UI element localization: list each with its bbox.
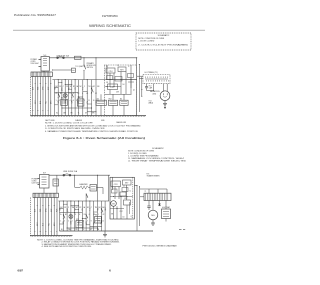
chassis ground bus bottom: [31, 115, 147, 117]
terminal labels under bus: [45, 119, 105, 122]
svg-text:Figure 6-1 : Oven Schematic (A: Figure 6-1 : Oven Schematic (All Conditi…: [63, 136, 145, 140]
svg-text:RY1: RY1: [61, 97, 64, 99]
svg-text:GY: GY: [85, 113, 87, 115]
bus drop wire 2: [96, 57, 97, 79]
bottom door switch SW1: [63, 214, 65, 219]
svg-text:1: 1: [32, 110, 34, 111]
svg-text:Q1: Q1: [131, 216, 133, 218]
svg-text:SCHEMATIC: SCHEMATIC: [158, 34, 170, 37]
bottom control board parts: [111, 177, 131, 219]
svg-text:LVT: LVT: [96, 98, 99, 100]
wire HV secondary drop 1: [145, 84, 148, 91]
svg-text:BL: BL: [56, 113, 58, 115]
svg-text:GRY: GRY: [51, 209, 53, 212]
bottom wire YEL: [48, 198, 50, 236]
bottom HV diode: [158, 201, 160, 206]
wire second riser: [138, 65, 140, 113]
svg-text:K2: K2: [95, 93, 97, 95]
bottom schematic notes: [37, 238, 120, 248]
chassis ground symbol: [103, 231, 107, 237]
micro labels row 2: [56, 100, 99, 102]
svg-text:BL: BL: [61, 229, 63, 231]
bottom neutral wire collector: [60, 231, 153, 232]
bottom wire ORG: [46, 198, 48, 236]
chassis boundary dashed left: [30, 77, 32, 116]
timer motor box: [77, 97, 84, 106]
svg-text:YEL: YEL: [45, 101, 47, 104]
wire BLU from TB1: [40, 77, 42, 116]
bottom wire tap links: [60, 205, 102, 227]
header rule: [13, 29, 205, 31]
svg-text:6: 6: [45, 83, 47, 84]
bottom right risers: [134, 185, 140, 231]
svg-text:B2: B2: [65, 214, 67, 216]
wire HV secondary drop 2: [147, 84, 154, 91]
svg-text:R1: R1: [112, 187, 114, 189]
bottom harness wire SW1: [63, 201, 65, 231]
noise filter FB1: [41, 55, 49, 71]
svg-text:R1: R1: [106, 66, 108, 68]
wire harness line GRN: [78, 80, 80, 116]
svg-text:6: 6: [48, 205, 50, 206]
top schematic power cord label: [31, 59, 39, 65]
bottom harness wire WHT: [101, 201, 103, 231]
svg-text:FWT05535C: FWT05535C: [102, 14, 118, 18]
svg-text:BRN: BRN: [51, 101, 53, 104]
component row rect 3 buzzer: [120, 94, 128, 115]
bottom routing wire row 3: [67, 227, 97, 229]
oven lamp OL: [61, 90, 67, 98]
wire GRY from TB1: [48, 77, 50, 116]
svg-text:5: 5: [63, 100, 64, 102]
svg-text:VR: VR: [106, 82, 108, 84]
svg-text:SCHEMATIC: SCHEMATIC: [152, 147, 164, 150]
wire HV filament drops: [163, 84, 167, 92]
svg-text:C2: C2: [123, 186, 125, 188]
bottom bus drop b: [97, 175, 98, 201]
svg-text:2: 2: [37, 205, 39, 206]
wire routing row 3: [62, 107, 92, 109]
terminal board TB1: [31, 72, 52, 77]
svg-text:E: E: [73, 93, 74, 95]
svg-text:4: 4: [40, 83, 42, 84]
wire BLK from TB1: [32, 77, 34, 116]
bottom bus drop c switch: [86, 194, 88, 202]
magnetron label: [150, 90, 160, 95]
bottom micro labels row 1: [60, 206, 105, 209]
bottom harness wire GRN: [86, 201, 88, 231]
svg-text:BLU: BLU: [105, 207, 107, 210]
svg-text:7: 7: [51, 231, 53, 232]
svg-text:D1: D1: [74, 214, 76, 216]
svg-text:WHT: WHT: [35, 100, 37, 104]
interlock switch label: [87, 62, 97, 69]
wire harness line TTM: [91, 80, 93, 116]
svg-text:RY2: RY2: [125, 198, 128, 200]
bottom monitor switch SW2: [86, 214, 88, 219]
svg-text:NOTE: 1. DOOR CLOSED, COOK CY: NOTE: 1. DOOR CLOSED, COOK CYCLE OFF.: [45, 123, 94, 125]
svg-text:IC: IC: [130, 191, 131, 193]
micro labels row 3: [56, 113, 95, 115]
HV transformer windings: [146, 76, 169, 81]
bottom wire BRN: [54, 198, 56, 236]
wire from noise filter to terminal board: [43, 71, 45, 72]
svg-text:RY: RY: [79, 207, 81, 209]
svg-text:D1: D1: [69, 93, 71, 95]
wire YEL from TB1: [45, 77, 47, 116]
primary interlock switch drop: [84, 57, 86, 79]
bottom noise filter FB1: [40, 173, 50, 188]
bottom wire PUR: [57, 198, 59, 236]
svg-text:2. INTERLOCK SWITCHES ARE SHOW: 2. INTERLOCK SWITCHES ARE SHOWN WITH DOO…: [45, 124, 142, 127]
bottom harness wire RY: [82, 201, 84, 231]
bottom micro labels row 2: [60, 221, 104, 223]
wire branch row upper: [52, 69, 72, 72]
component row rect 2 relay: [108, 94, 117, 115]
svg-text:K2: K2: [103, 214, 105, 216]
svg-text:OL: OL: [67, 211, 69, 213]
svg-text:Publication No. 5995353427: Publication No. 5995353427: [14, 13, 57, 17]
svg-text:2. COOK CYCLE NOT PROGRAMMED: 2. COOK CYCLE NOT PROGRAMMED: [138, 43, 189, 46]
svg-text:BLU: BLU: [40, 101, 42, 104]
bottom wire WHT: [37, 198, 39, 236]
bottom control board clutter: [110, 186, 133, 219]
svg-text:WHT: WHT: [37, 222, 39, 226]
wire RED from TB1: [38, 77, 40, 116]
bottom fuse F1: [63, 170, 78, 176]
node junction dots top right: [136, 57, 142, 97]
bottom HV transformer T1: [140, 173, 171, 200]
wire ORG from TB1: [43, 77, 45, 116]
thermal cutout TCO: [75, 56, 82, 59]
svg-text:BRN: BRN: [54, 223, 56, 226]
wire harness line FM: [87, 80, 89, 116]
bottom wire L1 bus: [49, 174, 110, 176]
bottom harness wire SW2: [78, 201, 80, 231]
bottom timer box: [95, 215, 102, 223]
bottom harness wire BLU: [105, 201, 107, 231]
bottom harness wire NC: [67, 201, 69, 231]
bottom wire RED: [40, 198, 42, 236]
bottom routing wire row 2: [60, 212, 83, 214]
svg-text:10: 10: [93, 100, 95, 102]
svg-text:1: 1: [34, 231, 36, 232]
svg-text:D4: D4: [123, 84, 125, 86]
heater element zigzag: [80, 183, 89, 189]
svg-text:(MG): (MG): [153, 93, 157, 95]
HV transformer dashed enclosure: [143, 75, 170, 84]
bottom control unit enclosure: [110, 177, 134, 219]
wire heater link: [75, 188, 103, 195]
svg-text:10: 10: [98, 221, 100, 223]
svg-text:4. SEE NOTE ABOVE FOR SWITCH C: 4. SEE NOTE ABOVE FOR SWITCH CONDITIONS.: [42, 245, 93, 248]
bottom wires from transformer top: [140, 189, 167, 193]
svg-text:11: 11: [95, 221, 97, 223]
svg-text:YL: YL: [78, 113, 80, 115]
control board components: [106, 65, 131, 94]
svg-text:12: 12: [102, 221, 104, 223]
svg-text:2: 2: [72, 221, 73, 223]
wire right riser: [136, 58, 138, 116]
svg-text:4. 'HIGH' HEAT TEMPERATURE S: 4. 'HIGH' HEAT TEMPERATURE SELECTED: [128, 159, 187, 162]
bottom interlock switch 3: [101, 208, 103, 213]
bottom relay RY1 box: [76, 219, 83, 228]
svg-text:MG: MG: [151, 215, 155, 217]
svg-text:INTERLOCK: INTERLOCK: [87, 65, 97, 67]
interlock relay box: [61, 97, 68, 105]
damper motor box: [90, 185, 97, 192]
wire L1 top bus: [49, 57, 136, 59]
bottom harness wire T-1: [90, 201, 92, 231]
bottom harness wire COM: [71, 201, 73, 231]
bottom micro labels row 4: [60, 213, 104, 216]
svg-text:C: C: [70, 214, 71, 216]
svg-text:SWITCH: SWITCH: [87, 67, 94, 69]
micro labels row 1: [56, 85, 100, 88]
bottom chassis dashed left: [29, 198, 31, 237]
control enclosure divider: [105, 93, 132, 95]
wire tap links: [55, 84, 97, 112]
magnetron ground: [163, 101, 167, 109]
wire harness line SW2: [72, 80, 74, 116]
svg-text:C2: C2: [117, 65, 119, 67]
bottom harness wire BLK: [59, 201, 61, 231]
monitor switch SW2: [71, 93, 73, 98]
svg-text:YEL: YEL: [48, 223, 50, 226]
bottom harness wire SM: [97, 201, 99, 231]
stray marks right: [179, 228, 185, 230]
control board clutter: [105, 65, 137, 91]
svg-text:BLU: BLU: [43, 223, 45, 226]
secondary interlock switch: [91, 88, 93, 93]
wire routing row 2: [55, 91, 79, 93]
svg-text:1: 1: [56, 100, 57, 102]
schematic condition note box: [136, 33, 191, 50]
bottom HV capacitor lead: [147, 201, 150, 211]
bottom wire GRY: [51, 198, 53, 236]
svg-text:E: E: [79, 214, 80, 216]
svg-text:4. VARIABLE POWER SWITCH AND T: 4. VARIABLE POWER SWITCH AND TEMPERATURE…: [45, 130, 139, 133]
bottom terminal board TB1: [33, 193, 58, 197]
svg-text:11: 11: [88, 100, 90, 102]
top schematic notes: [45, 123, 142, 133]
micro labels row 4: [56, 92, 98, 95]
svg-text:OL: OL: [61, 90, 63, 92]
svg-text:6/97: 6/97: [18, 268, 24, 272]
bottom wire BLU: [43, 198, 45, 236]
svg-text:VR: VR: [111, 214, 113, 216]
svg-text:F2: F2: [78, 93, 80, 95]
wire harness line RY: [75, 80, 77, 116]
svg-text:WH: WH: [63, 113, 66, 115]
svg-text:H1: H1: [86, 93, 88, 95]
bottom control inner dashed: [132, 177, 134, 219]
junction dots row: [58, 79, 92, 108]
HV capacitor label: [149, 85, 153, 89]
svg-text:GRY: GRY: [48, 87, 50, 90]
svg-text:4: 4: [70, 100, 71, 102]
bottom wire BLK: [34, 198, 36, 236]
svg-text:IC: IC: [128, 66, 129, 68]
svg-text:RY1: RY1: [76, 219, 79, 221]
wire harness line BLK: [54, 80, 56, 116]
wire harness line WHT: [96, 80, 98, 116]
svg-text:F2: F2: [84, 214, 86, 216]
svg-text:RY: RY: [73, 86, 75, 88]
svg-text:CNT: CNT: [120, 211, 123, 213]
svg-text:4: 4: [76, 221, 77, 223]
svg-text:3: 3: [59, 100, 60, 102]
svg-text:WH: WH: [68, 229, 71, 231]
fuse F1 15A: [56, 54, 70, 58]
svg-text:120V 60HZ: 120V 60HZ: [31, 63, 39, 65]
svg-text:WIRING SCHEMATIC: WIRING SCHEMATIC: [89, 24, 132, 28]
bottom HV capacitor can: [162, 201, 171, 222]
extra links top: [55, 82, 92, 105]
wire hv drop 1: [141, 77, 143, 97]
wire BRN from TB1: [51, 77, 53, 116]
svg-text:CNT: CNT: [116, 92, 119, 94]
svg-text:B2: B2: [60, 93, 62, 95]
svg-text:T1: T1: [145, 191, 147, 193]
bottom junction dots: [63, 201, 98, 229]
bottom magnetron ground: [151, 220, 155, 225]
svg-text:1. DOOR CLOSED: 1. DOOR CLOSED: [138, 40, 155, 42]
wire stubs to HV transformer: [137, 76, 143, 78]
thermal cutout magnetron label: [149, 101, 154, 105]
bottom wire riser right of NF: [56, 175, 58, 193]
wire harness line COM: [65, 80, 67, 116]
wire harness line NC: [62, 80, 64, 116]
bottom power cord label: [32, 179, 40, 185]
svg-text:GY: GY: [90, 229, 92, 231]
svg-text:Q1: Q1: [133, 90, 135, 92]
wire bus drop right: [108, 175, 110, 201]
bottom schematic condition list: [128, 147, 187, 163]
bottom micro labels row 3: [61, 229, 100, 231]
svg-text:FWT05535C WIRING DIAGRAM: FWT05535C WIRING DIAGRAM: [143, 245, 178, 248]
bottom extra links: [60, 204, 98, 225]
bottom chassis ground bus: [30, 235, 72, 237]
bottom routing wire row: [58, 200, 109, 202]
bottom wire riser to TB: [43, 188, 45, 193]
plug wires: [39, 60, 42, 67]
magnetron MG: [160, 91, 170, 101]
thermistor box: [72, 68, 76, 72]
wire harness line T-1: [83, 80, 85, 116]
bottom harness wire NO: [75, 201, 77, 231]
svg-text:2: 2: [66, 100, 67, 102]
svg-text:RY2: RY2: [109, 98, 112, 100]
wire harness line SW1: [58, 80, 60, 116]
bottom magnetron MG: [148, 201, 158, 220]
wire WHT from TB1: [35, 77, 37, 116]
svg-text:9: 9: [91, 221, 92, 223]
control unit dashed enclosure: [105, 65, 137, 116]
svg-text:CORD: CORD: [32, 181, 38, 183]
bottom plug wires: [38, 179, 40, 185]
bottom oven lamp: [67, 211, 73, 219]
component row rect 1 interlock: [96, 94, 106, 115]
bottom aux component box: [53, 179, 59, 186]
wire harness line NO: [68, 80, 70, 116]
wire routing row: [52, 79, 136, 81]
svg-text:CORD: CORD: [31, 61, 37, 63]
bottom harness wire FM: [94, 201, 96, 231]
svg-text:C: C: [64, 93, 65, 95]
svg-text:H1: H1: [93, 214, 95, 216]
door sensing switch SW1: [58, 93, 60, 98]
svg-text:D4: D4: [123, 217, 125, 219]
bottom bus drop a: [74, 175, 75, 188]
svg-text:BZ: BZ: [120, 98, 122, 100]
svg-text:YL: YL: [83, 229, 85, 231]
svg-text:3. CONDITION OF SWITCHES SHOWN: 3. CONDITION OF SWITCHES SHOWN: OVEN OFF…: [45, 128, 106, 130]
svg-text:D.P.C.: D.P.C.: [110, 87, 115, 89]
